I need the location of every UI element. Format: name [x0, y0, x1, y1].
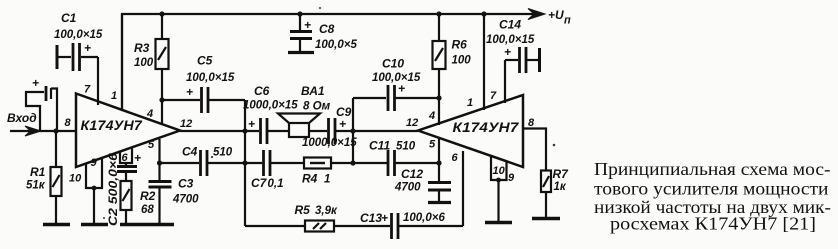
svg-text:+: + [84, 41, 91, 55]
svg-text:5: 5 [148, 139, 155, 151]
capacitor C11 [369, 139, 439, 177]
caption text [594, 159, 831, 234]
svg-text:4700: 4700 [394, 182, 421, 194]
svg-text:+: + [304, 18, 311, 32]
capacitor C7 [245, 150, 304, 190]
svg-text:+: + [504, 45, 511, 59]
svg-text:510: 510 [213, 147, 233, 159]
svg-text:0,1: 0,1 [268, 178, 284, 190]
connector X1 input plug [26, 76, 57, 131]
svg-text:Вход: Вход [7, 111, 37, 125]
wire pin 8 right [523, 129, 546, 171]
svg-text:1000,0×15: 1000,0×15 [243, 100, 298, 112]
node bus2-output junction [350, 128, 355, 133]
resistor R4 [302, 158, 387, 186]
svg-text:12: 12 [180, 118, 192, 130]
resistor R6 [433, 14, 472, 98]
resistor R1 [26, 131, 62, 224]
svg-text:68: 68 [141, 204, 154, 216]
svg-text:100,0×15: 100,0×15 [54, 29, 103, 41]
svg-text:+: + [398, 82, 405, 96]
node rail-pin1 junction [481, 11, 486, 16]
ground below R1 [43, 223, 70, 226]
capacitor C6 [243, 84, 298, 144]
svg-text:R5: R5 [295, 203, 311, 217]
svg-text:5: 5 [429, 139, 436, 151]
svg-text:9: 9 [508, 172, 515, 184]
svg-text:C3: C3 [178, 177, 194, 191]
svg-text:1: 1 [111, 90, 117, 102]
svg-text:100,0×15: 100,0×15 [186, 72, 235, 84]
svg-text:+: + [381, 211, 388, 225]
svg-text:7: 7 [490, 90, 497, 102]
svg-text:10: 10 [69, 173, 82, 185]
svg-text:тового усилителя мощности: тового усилителя мощности [594, 179, 829, 199]
svg-text:C1: C1 [61, 11, 77, 25]
svg-text:8 Ом: 8 Ом [303, 101, 331, 113]
resistor R2 [121, 181, 156, 224]
svg-text:9: 9 [91, 157, 98, 169]
svg-text:R7: R7 [553, 167, 570, 181]
ground below C3 [146, 223, 174, 226]
svg-text:+U: +U [548, 8, 564, 22]
node rail-R6 junction [436, 11, 441, 16]
node bus-output junction [242, 128, 247, 133]
svg-text:1к: 1к [554, 181, 567, 193]
svg-text:К174УН7: К174УН7 [81, 118, 144, 133]
svg-text:C14: C14 [499, 18, 521, 32]
svg-text:12: 12 [406, 117, 418, 129]
node Vhod input label and arrow [7, 111, 76, 136]
node row163-bus2 junction [350, 160, 355, 165]
svg-text:4700: 4700 [172, 194, 199, 206]
svg-text:1000,0×15: 1000,0×15 [302, 137, 357, 149]
svg-text:8: 8 [528, 117, 535, 129]
svg-text:C4: C4 [182, 145, 198, 159]
svg-text:C7: C7 [251, 176, 268, 190]
wire output row left [180, 130, 259, 132]
op-amp U1 K174UN7 left [76, 94, 180, 168]
wire pin 1 right [483, 14, 485, 110]
wire pin 4 right [438, 98, 440, 125]
wire left feedback bus [244, 100, 246, 226]
capacitor C9 [302, 105, 418, 149]
wire bottom feedback row [245, 225, 463, 227]
speck noise dots [103, 7, 555, 219]
wire pin 7 left [97, 57, 99, 105]
node pin5-C3 junction [157, 160, 162, 165]
svg-text:Принципиальная схема мос-: Принципиальная схема мос- [594, 159, 831, 179]
svg-text:C10: C10 [382, 57, 404, 71]
wire pin 4 left [161, 100, 163, 123]
capacitor C14 [486, 18, 540, 74]
svg-text:+: + [186, 85, 193, 99]
capacitor C1 [54, 11, 103, 71]
node pin4 right junction [436, 95, 441, 100]
capacitor C2 [108, 152, 137, 226]
svg-text:100,0×15: 100,0×15 [372, 72, 421, 84]
node rail-R3 junction [159, 11, 164, 16]
svg-text:К174УН7: К174УН7 [453, 120, 520, 135]
pins 9 10 box left [69, 157, 102, 190]
svg-text:п: п [564, 15, 571, 27]
capacitor C10 [353, 57, 439, 112]
svg-text:1: 1 [467, 97, 473, 109]
svg-text:C5: C5 [197, 54, 213, 68]
svg-text:росхемах К174УН7 [21]: росхемах К174УН7 [21] [610, 214, 816, 234]
svg-text:100,0×6: 100,0×6 [403, 212, 445, 224]
ground below C8 [288, 51, 314, 54]
svg-text:R4: R4 [302, 172, 318, 186]
svg-text:C2 500,0×6: C2 500,0×6 [108, 152, 120, 226]
svg-text:4: 4 [428, 110, 435, 122]
svg-text:10: 10 [493, 165, 506, 177]
svg-text:+: + [32, 76, 39, 90]
svg-text:ВА1: ВА1 [301, 84, 325, 98]
ground below R7 [532, 217, 560, 220]
svg-text:R3: R3 [134, 41, 150, 55]
resistor R3 [134, 14, 169, 100]
svg-text:C8: C8 [319, 22, 335, 36]
wire +Un arrow head [528, 9, 545, 20]
capacitor C5 [162, 54, 245, 114]
svg-text:+: + [339, 117, 346, 131]
svg-text:100: 100 [134, 57, 154, 69]
svg-text:4: 4 [146, 108, 153, 120]
wire pin 1 left [121, 14, 123, 110]
resistor R5 [295, 203, 338, 232]
svg-text:R2: R2 [140, 189, 156, 203]
svg-text:6: 6 [122, 152, 129, 164]
node pin4 left junction [159, 97, 164, 102]
node rail-C8 junction [297, 11, 302, 16]
svg-text:6: 6 [452, 152, 459, 164]
node pin5-C12 junction [436, 160, 441, 165]
capacitor C12 [394, 163, 451, 202]
pin 6 box left [120, 147, 141, 165]
svg-text:C13: C13 [360, 211, 382, 225]
svg-text:1: 1 [324, 174, 330, 186]
svg-text:+: + [134, 151, 141, 165]
svg-text:C6: C6 [254, 84, 270, 98]
svg-text:8: 8 [65, 117, 72, 129]
capacitor C4 [160, 145, 245, 177]
wire +Un supply rail [122, 14, 536, 109]
svg-text:100,0×5: 100,0×5 [315, 39, 357, 51]
ground below C12 [428, 201, 451, 204]
node +Un label [548, 8, 571, 27]
speaker BA1 [278, 84, 331, 137]
node bus-row163 junction [242, 160, 247, 165]
svg-text:R6: R6 [452, 38, 468, 52]
ground below pins 10 9 right [485, 221, 512, 224]
wire pins 9 10 to ground [93, 188, 95, 224]
resistor R7 [541, 167, 569, 218]
svg-text:R1: R1 [30, 165, 46, 179]
capacitor C13 [360, 211, 445, 239]
svg-text:510: 510 [396, 141, 416, 153]
svg-text:3,9к: 3,9к [315, 205, 338, 217]
wire pin 5 right [438, 137, 440, 163]
svg-text:100: 100 [452, 55, 472, 67]
capacitor C8 [290, 14, 357, 51]
ground below R2 [120, 223, 146, 226]
node input junction [53, 128, 58, 133]
svg-text:C12: C12 [401, 167, 423, 181]
svg-text:51к: 51к [26, 180, 46, 192]
wire pin 6 right [462, 151, 464, 226]
wire right feedback bus [352, 98, 354, 163]
svg-text:7: 7 [84, 84, 91, 96]
pins 10 9 box right [491, 157, 515, 184]
svg-text:+: + [248, 117, 255, 131]
wire pins 10 9 to ground right [497, 180, 499, 222]
svg-text:C11: C11 [369, 139, 390, 153]
wire pin 7 right [504, 60, 506, 103]
wire pin 5 left [158, 139, 160, 163]
capacitor C3 [149, 163, 200, 224]
op-amp U2 K174UN7 right [418, 95, 523, 167]
ground below pins 9 10 left [81, 223, 108, 226]
